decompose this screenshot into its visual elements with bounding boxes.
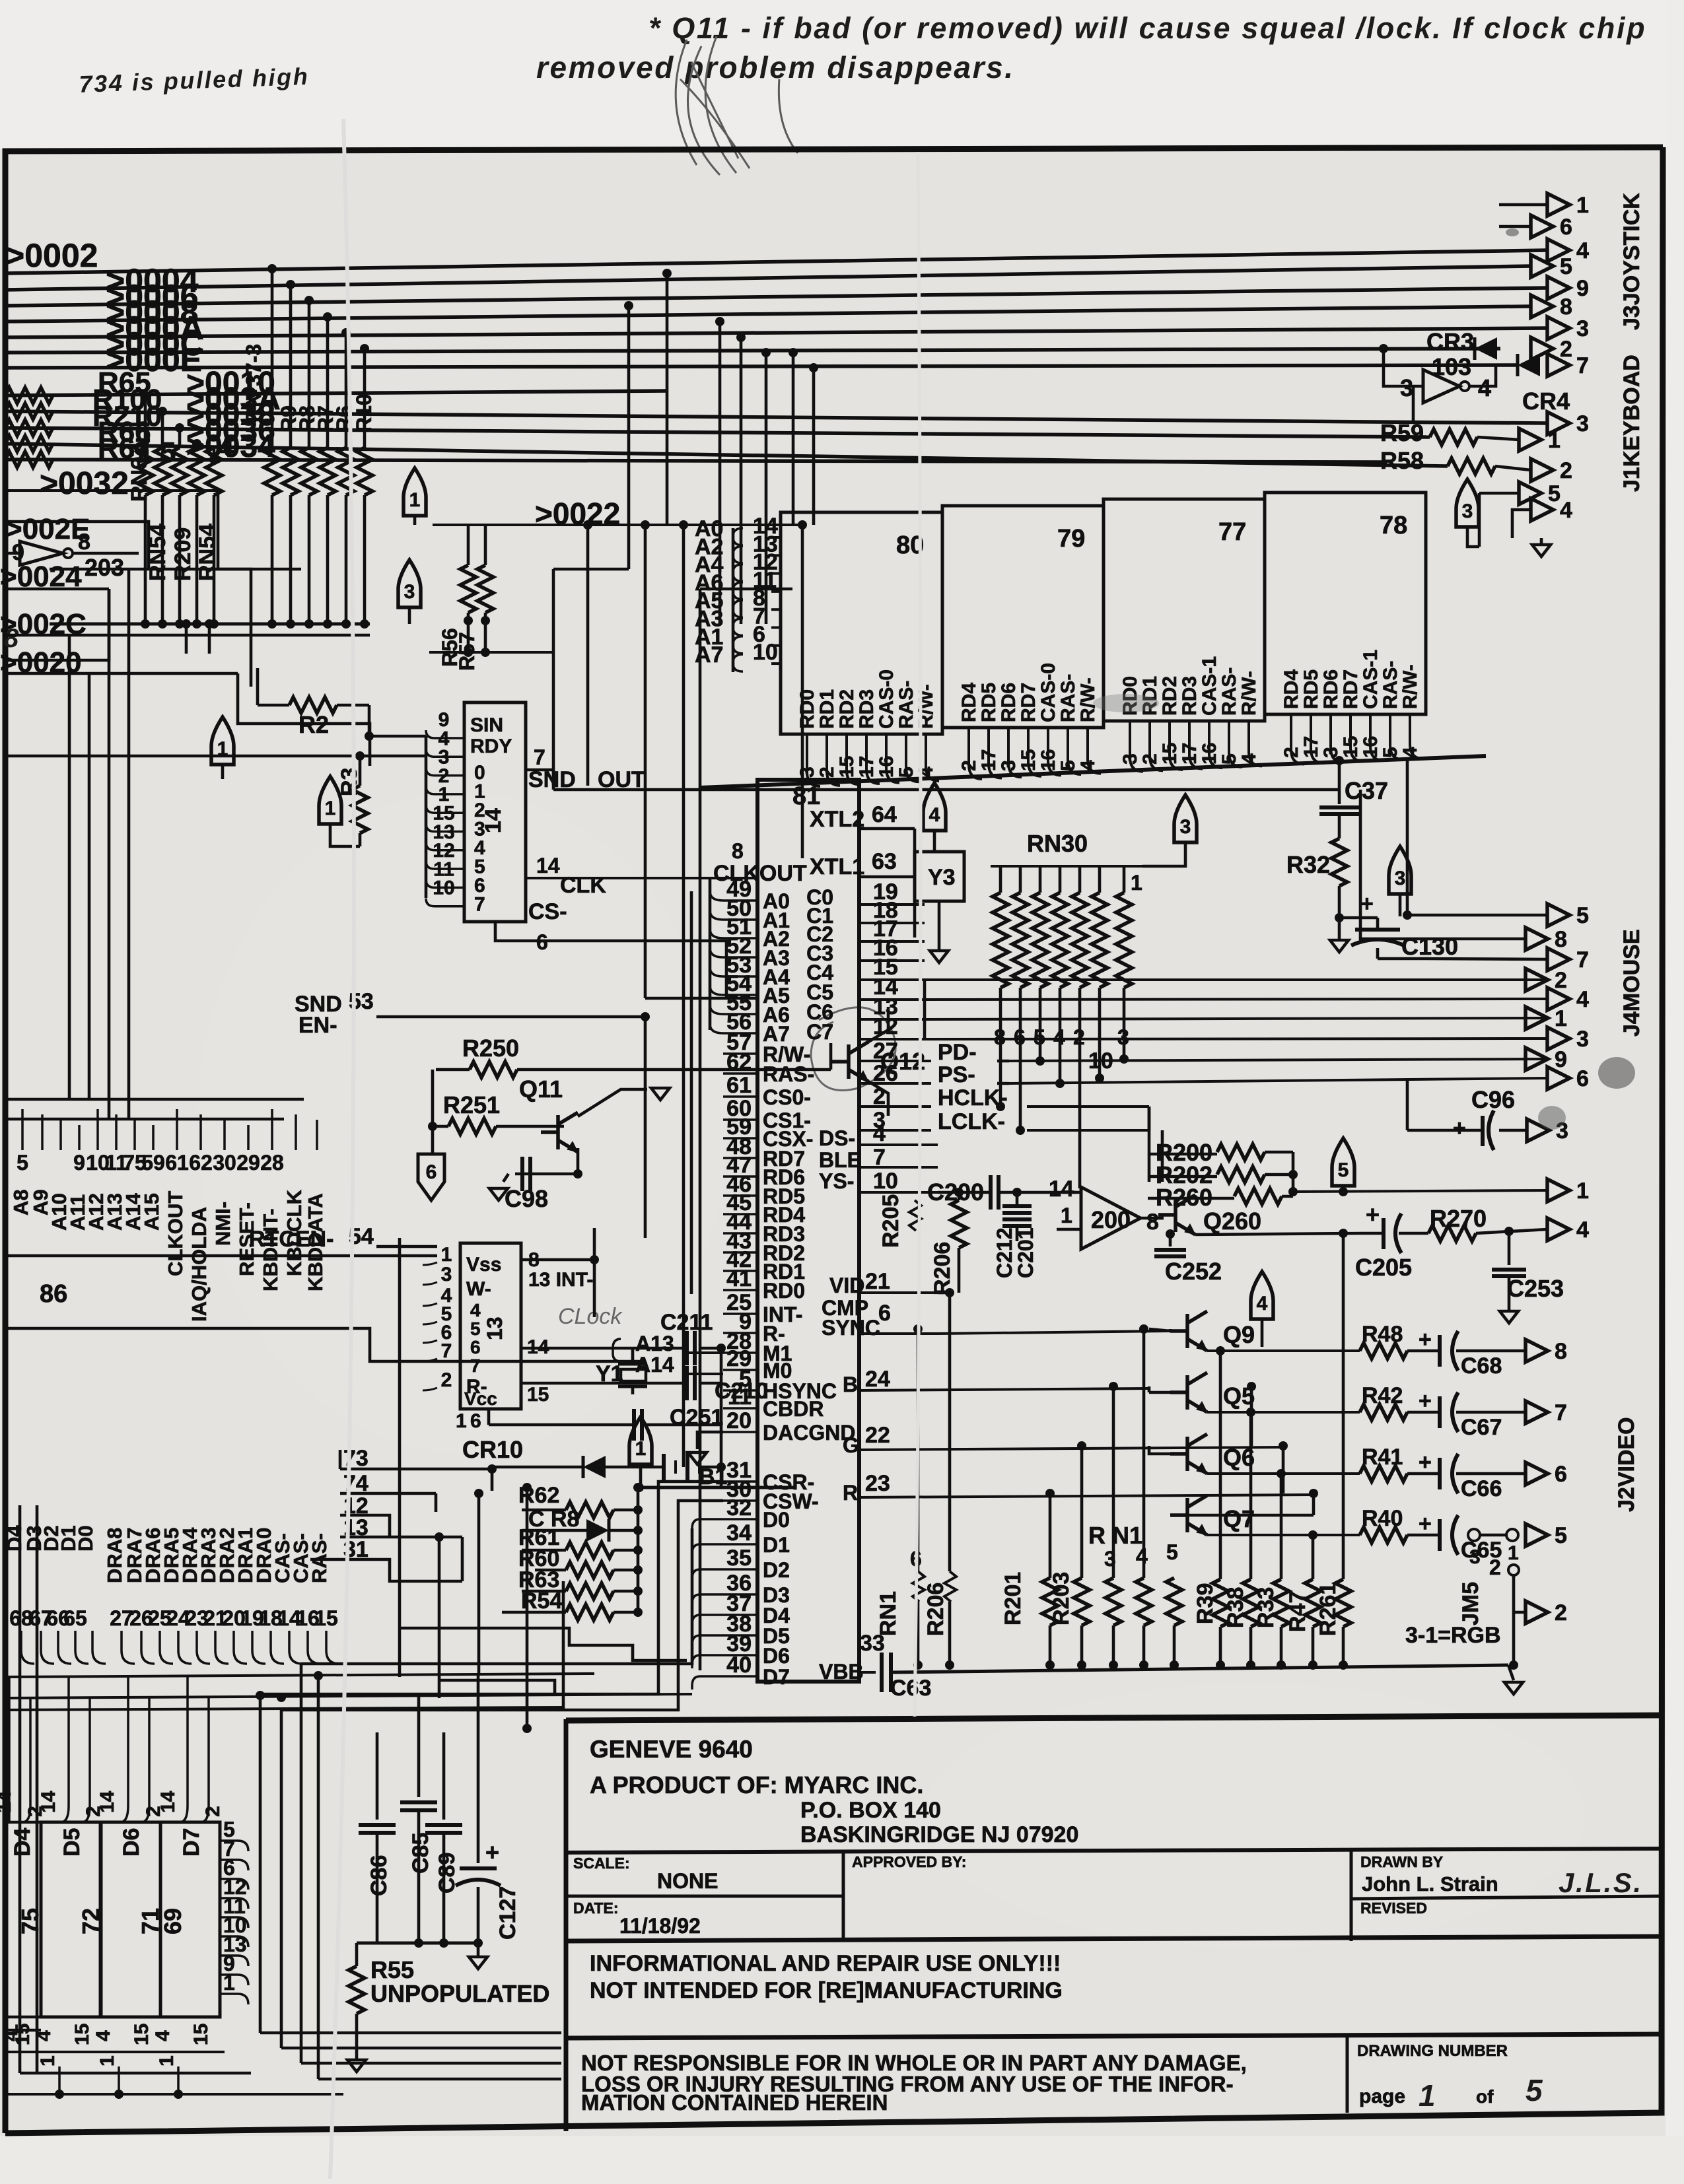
wire cluster A bus lines bbox=[4, 1098, 304, 1101]
wire mouse pin8 bbox=[1360, 790, 1526, 939]
J2 pin 6 bbox=[1526, 1462, 1548, 1485]
svg-text:DS-: DS- bbox=[819, 1126, 855, 1150]
wire to J2 pin1 bbox=[1293, 1190, 1547, 1192]
svg-text:D6: D6 bbox=[119, 1828, 144, 1857]
svg-text:C68: C68 bbox=[1461, 1353, 1502, 1379]
svg-text:BLE: BLE bbox=[819, 1148, 861, 1172]
J1 pin 1 bbox=[1519, 428, 1541, 451]
svg-text:11: 11 bbox=[728, 1384, 752, 1410]
wire pin hook bbox=[1048, 728, 1061, 775]
capacitor C252 bbox=[1169, 1233, 1172, 1246]
svg-text:RAS-: RAS- bbox=[1380, 661, 1401, 709]
svg-text:D2: D2 bbox=[763, 1558, 790, 1582]
svg-text:8: 8 bbox=[1555, 1339, 1567, 1364]
svg-text:RN 37-3: RN 37-3 bbox=[242, 344, 265, 423]
wire vertical bbox=[363, 349, 367, 448]
svg-text:12: 12 bbox=[873, 1014, 898, 1039]
svg-text:NMI-: NMI- bbox=[211, 1202, 234, 1246]
J4 pin 8 bbox=[1526, 928, 1548, 950]
power symbol 3 (RN30) bbox=[1174, 795, 1197, 842]
svg-text:6: 6 bbox=[1560, 215, 1572, 240]
wire pin hook bbox=[847, 734, 860, 784]
wire pin hook bbox=[423, 1340, 437, 1343]
svg-text:41: 41 bbox=[726, 1266, 752, 1291]
svg-text:4: 4 bbox=[929, 804, 940, 826]
wire vertical bbox=[271, 269, 274, 448]
wire vertical bbox=[345, 333, 348, 448]
svg-text:9: 9 bbox=[1555, 1047, 1567, 1072]
J3 pin 4 bbox=[1547, 239, 1570, 261]
wire base bbox=[1170, 1391, 1187, 1394]
svg-text:page: page bbox=[1359, 2086, 1405, 2107]
J4 pin 2 bbox=[1526, 969, 1548, 991]
ground J1 bbox=[1540, 538, 1543, 545]
svg-text:C85: C85 bbox=[408, 1833, 433, 1874]
svg-text:LCLK-: LCLK- bbox=[938, 1109, 1005, 1134]
resistor RN37 element 2 bbox=[155, 448, 170, 495]
svg-text:5: 5 bbox=[1526, 2073, 1544, 2107]
resistor RN37-3 bbox=[264, 448, 280, 495]
svg-text:>0002: >0002 bbox=[5, 237, 98, 274]
svg-text:RD6: RD6 bbox=[1320, 669, 1342, 709]
junction diamonds bbox=[464, 616, 473, 625]
svg-text:4: 4 bbox=[1576, 987, 1589, 1012]
svg-text:D7: D7 bbox=[179, 1828, 204, 1857]
svg-text:R39: R39 bbox=[1193, 1583, 1218, 1624]
svg-text:69: 69 bbox=[159, 1908, 186, 1934]
J1 pin 4 bbox=[1512, 510, 1531, 538]
svg-text:5: 5 bbox=[1166, 1540, 1178, 1564]
resistor R10 bbox=[357, 448, 372, 495]
svg-text:C205: C205 bbox=[1355, 1254, 1412, 1281]
J4 pin 7 bbox=[1547, 948, 1570, 971]
svg-text:3: 3 bbox=[1576, 1027, 1589, 1052]
resistor RN37 element 3 bbox=[172, 448, 188, 495]
svg-text:R203: R203 bbox=[1049, 1572, 1074, 1625]
svg-text:RN1: RN1 bbox=[876, 1591, 901, 1636]
svg-text:+: + bbox=[485, 1839, 499, 1866]
svg-text:81: 81 bbox=[792, 782, 820, 810]
IC box 69 bbox=[160, 1822, 220, 2017]
wire addr hook bbox=[733, 600, 743, 617]
svg-text:R33: R33 bbox=[1253, 1587, 1279, 1628]
svg-text:+: + bbox=[1419, 1511, 1432, 1536]
wire bus line bbox=[4, 349, 1500, 353]
svg-text:21: 21 bbox=[865, 1269, 890, 1294]
svg-text:1: 1 bbox=[1061, 1204, 1072, 1227]
wire addr hook bbox=[733, 619, 743, 636]
svg-text:78: 78 bbox=[1380, 512, 1407, 539]
svg-text:203: 203 bbox=[85, 554, 124, 581]
wire addr hook bbox=[733, 564, 743, 582]
wire left border verticals bbox=[18, 1505, 22, 2073]
wire vertical x977 bbox=[644, 525, 647, 998]
svg-text:+: + bbox=[1419, 1327, 1432, 1352]
svg-text:1: 1 bbox=[1576, 1178, 1589, 1204]
svg-text:C37: C37 bbox=[1345, 777, 1388, 804]
RN30 resistor 6 bbox=[1098, 866, 1102, 893]
svg-text:Q260: Q260 bbox=[1203, 1208, 1261, 1235]
svg-text:15: 15 bbox=[527, 1384, 549, 1406]
wire CR4 net bbox=[1384, 349, 1423, 386]
wire pin hook bbox=[426, 768, 464, 776]
capacitor C65 bbox=[1407, 1534, 1440, 1537]
wire bus lines lower left bbox=[4, 1674, 594, 1677]
svg-text:5: 5 bbox=[1548, 481, 1561, 506]
svg-text:KBDCLK: KBDCLK bbox=[283, 1190, 306, 1276]
svg-text:BASKINGRIDGE NJ 07920: BASKINGRIDGE NJ 07920 bbox=[800, 1822, 1078, 1847]
svg-text:5: 5 bbox=[1338, 1159, 1349, 1181]
svg-text:CLK: CLK bbox=[560, 873, 606, 898]
IC box 72 bbox=[41, 1822, 100, 2017]
svg-text:C252: C252 bbox=[1165, 1258, 1222, 1285]
wire horiz mid bbox=[553, 568, 629, 571]
wire addr vert bbox=[732, 528, 735, 672]
svg-text:PS-: PS- bbox=[938, 1062, 975, 1087]
wire pin hook bbox=[827, 734, 840, 786]
wire pin hook bbox=[926, 734, 939, 781]
wire crystal node bbox=[720, 1348, 723, 1383]
svg-text:RD1: RD1 bbox=[816, 689, 838, 729]
wire bus line bbox=[4, 266, 1531, 290]
resistor R8 bbox=[301, 448, 317, 495]
svg-text:1: 1 bbox=[156, 2055, 178, 2066]
svg-text:22: 22 bbox=[865, 1423, 890, 1448]
wire Q11 bbox=[431, 1070, 435, 1126]
svg-text:3: 3 bbox=[404, 581, 415, 603]
svg-text:75: 75 bbox=[17, 1908, 44, 1934]
svg-text:+: + bbox=[1419, 1450, 1432, 1475]
wire vertical bbox=[308, 300, 311, 448]
J3 pin 1 bbox=[1499, 203, 1547, 207]
wire vertical x1010 bbox=[666, 273, 669, 525]
svg-text:+: + bbox=[1419, 1388, 1432, 1414]
scan smudges bbox=[1598, 1057, 1635, 1089]
J1 pin 2 bbox=[1531, 459, 1553, 481]
wire pin hook bbox=[1390, 714, 1403, 760]
svg-text:1: 1 bbox=[409, 489, 421, 511]
wire bus line bbox=[4, 306, 1531, 322]
svg-text:D1: D1 bbox=[763, 1533, 790, 1557]
svg-text:2: 2 bbox=[1555, 968, 1567, 993]
wire pin hook bbox=[426, 805, 464, 813]
resistor R66 bbox=[5, 436, 53, 452]
wire mouse pin5 bbox=[1407, 914, 1547, 917]
power symbol 1 (B1) bbox=[629, 1417, 652, 1464]
svg-text:RD5: RD5 bbox=[1300, 669, 1322, 709]
diode CR4 bbox=[1518, 354, 1540, 376]
svg-text:RD2: RD2 bbox=[1159, 676, 1181, 716]
svg-text:1: 1 bbox=[96, 2055, 118, 2066]
svg-text:4: 4 bbox=[92, 2030, 114, 2041]
wire pin hook bbox=[426, 879, 464, 887]
svg-text:1: 1 bbox=[1576, 193, 1589, 218]
wire base bbox=[1170, 1452, 1187, 1456]
svg-text:4: 4 bbox=[1478, 374, 1491, 401]
svg-text:4: 4 bbox=[152, 2030, 174, 2041]
J3 pin 2 bbox=[1531, 337, 1553, 360]
pencil scribble Q12 bbox=[811, 1007, 895, 1091]
svg-text:5: 5 bbox=[470, 1318, 481, 1339]
resistor R6 bbox=[338, 448, 354, 495]
DRAM chip box 80 bbox=[781, 512, 942, 734]
wire base bbox=[1170, 1514, 1187, 1517]
wire pin hook bbox=[866, 734, 880, 784]
resistor RN37 element 5 bbox=[206, 448, 222, 495]
wire left long verticals bbox=[68, 635, 71, 1099]
wire vertical x838 bbox=[552, 569, 555, 786]
wire trunk verticals bottom bbox=[398, 1631, 402, 1677]
wire pin hook bbox=[969, 728, 982, 779]
wire chip14 left bus bbox=[425, 736, 428, 898]
svg-text:10: 10 bbox=[873, 1169, 898, 1194]
svg-text:63: 63 bbox=[872, 849, 897, 874]
svg-text:5: 5 bbox=[17, 1151, 28, 1175]
svg-text:R/W-: R/W- bbox=[1399, 664, 1421, 709]
wire pin hook bbox=[426, 824, 464, 832]
svg-text:D0: D0 bbox=[74, 1525, 97, 1552]
ground R32 bbox=[1338, 918, 1341, 939]
svg-text:24: 24 bbox=[865, 1367, 890, 1392]
svg-text:3: 3 bbox=[1576, 316, 1589, 341]
svg-text:1: 1 bbox=[37, 2055, 59, 2066]
svg-text:59: 59 bbox=[141, 1151, 165, 1175]
resistor R100 bbox=[5, 403, 53, 419]
svg-text:C67: C67 bbox=[1461, 1415, 1502, 1440]
svg-text:61: 61 bbox=[726, 1073, 752, 1098]
wire bottom hooks bbox=[4, 2029, 41, 2032]
pencil scribble bbox=[676, 36, 798, 175]
svg-text:7: 7 bbox=[474, 894, 485, 916]
resistor R67 bbox=[5, 452, 53, 467]
wire trunk verticals mid bbox=[339, 1450, 342, 1469]
svg-text:CS0-: CS0- bbox=[763, 1085, 811, 1109]
svg-text:86: 86 bbox=[40, 1280, 67, 1308]
svg-text:RAS-: RAS- bbox=[308, 1533, 331, 1583]
ground JM5 bbox=[1508, 1665, 1514, 1680]
wire vertical bbox=[144, 395, 147, 448]
IC 13 clock chip box bbox=[460, 1243, 521, 1409]
svg-text:R2: R2 bbox=[298, 711, 329, 738]
wire vertical x1215 bbox=[801, 525, 804, 858]
svg-text:INFORMATIONAL AND REPAIR US: INFORMATIONAL AND REPAIR USE ONLY!!! bbox=[590, 1951, 1061, 1976]
svg-text:C96: C96 bbox=[1471, 1086, 1515, 1113]
wire SNDOUT bbox=[552, 770, 555, 790]
svg-text:removed problem disappears.: removed problem disappears. bbox=[536, 50, 1015, 85]
DRAM chip box 78 bbox=[1265, 493, 1426, 714]
svg-text:PD-: PD- bbox=[938, 1040, 977, 1065]
wire pin hook bbox=[1008, 728, 1022, 777]
wire D bus vert bbox=[301, 1528, 692, 1664]
svg-text:Vcc: Vcc bbox=[464, 1388, 497, 1409]
wire pin hook bbox=[426, 730, 464, 738]
svg-text:RD0: RD0 bbox=[796, 689, 818, 729]
wire pin hook bbox=[1209, 721, 1222, 768]
svg-text:R251: R251 bbox=[443, 1091, 500, 1118]
wire vertical x890 bbox=[586, 525, 590, 786]
svg-text:CAS-1: CAS-1 bbox=[1360, 650, 1382, 709]
svg-text:RAS-: RAS- bbox=[763, 1062, 814, 1086]
svg-text:3: 3 bbox=[1395, 868, 1406, 889]
svg-text:2: 2 bbox=[1560, 337, 1572, 362]
J3 pin 6 bbox=[1499, 225, 1531, 228]
J3 pin 9 bbox=[1547, 277, 1570, 299]
svg-text:5: 5 bbox=[1576, 903, 1589, 928]
svg-text:20: 20 bbox=[726, 1408, 752, 1433]
J2 pin 4 bbox=[1547, 1218, 1570, 1241]
wire fan verticals bbox=[259, 1694, 262, 2033]
wire R2xx join bbox=[1292, 1152, 1295, 1196]
svg-text:R206: R206 bbox=[923, 1583, 948, 1636]
wire pin hook bbox=[1189, 721, 1203, 769]
resistor R56 bbox=[467, 525, 470, 565]
power symbol 3 (keyboard) bbox=[1456, 479, 1479, 527]
svg-text:NONE: NONE bbox=[657, 1869, 718, 1893]
svg-text:4: 4 bbox=[1257, 1293, 1268, 1314]
svg-text:11/18/92: 11/18/92 bbox=[619, 1914, 701, 1938]
ground Y3 bbox=[938, 901, 941, 949]
wire R2 node bbox=[368, 705, 371, 736]
resistor R2 bbox=[256, 668, 260, 705]
svg-text:3: 3 bbox=[1469, 1546, 1481, 1568]
wire addr hook bbox=[733, 636, 743, 654]
svg-text:RAS-: RAS- bbox=[1057, 674, 1079, 722]
svg-text:R/W-: R/W- bbox=[1238, 671, 1260, 716]
svg-text:1: 1 bbox=[1555, 1006, 1567, 1031]
svg-text:2: 2 bbox=[24, 1806, 46, 1817]
svg-text:2: 2 bbox=[83, 1806, 104, 1817]
power symbol 3 (left) bbox=[398, 560, 421, 607]
svg-text:R206: R206 bbox=[930, 1242, 955, 1295]
resistor RN37 element 1 bbox=[137, 448, 153, 495]
svg-text:8: 8 bbox=[732, 839, 744, 863]
svg-text:RESET-: RESET- bbox=[235, 1202, 258, 1276]
svg-text:32: 32 bbox=[726, 1495, 752, 1520]
svg-text:R201: R201 bbox=[1000, 1572, 1026, 1625]
svg-text:8: 8 bbox=[1560, 294, 1572, 320]
svg-text:John L. Strain: John L. Strain bbox=[1362, 1872, 1498, 1895]
wire keyboard stub bbox=[1478, 493, 1481, 547]
svg-text:VBB: VBB bbox=[819, 1660, 864, 1684]
power symbol 5 bbox=[1332, 1138, 1354, 1186]
svg-text:RAS-: RAS- bbox=[895, 681, 917, 729]
IC box 75 partial bbox=[5, 1821, 41, 1824]
svg-text:7: 7 bbox=[1576, 353, 1589, 378]
svg-text:C212: C212 bbox=[993, 1228, 1016, 1279]
svg-text:7: 7 bbox=[1555, 1400, 1567, 1425]
wire CSR/CSW hooks bbox=[260, 1482, 723, 1694]
IC box 71 bbox=[101, 1822, 160, 2017]
capacitor C212 C201 bbox=[1002, 1204, 1032, 1208]
svg-text:IAQ/HOLDA: IAQ/HOLDA bbox=[188, 1207, 211, 1322]
J1 pin 5 bbox=[1479, 492, 1519, 495]
svg-text:4: 4 bbox=[873, 1121, 886, 1146]
svg-text:8: 8 bbox=[78, 529, 90, 555]
wire pin hook bbox=[426, 861, 464, 869]
wire chip81 left bus verticals bbox=[709, 878, 712, 1030]
svg-text:15: 15 bbox=[71, 2024, 93, 2045]
svg-text:SIN: SIN bbox=[470, 714, 503, 736]
svg-text:9: 9 bbox=[1576, 276, 1589, 301]
svg-text:CS-: CS- bbox=[528, 899, 567, 924]
svg-text:8: 8 bbox=[1146, 1210, 1159, 1235]
svg-text:14: 14 bbox=[536, 854, 560, 877]
wire pin hook bbox=[423, 1282, 437, 1285]
wire vertical bbox=[289, 285, 293, 448]
wire C130 to mouse pin7 bbox=[1426, 959, 1547, 959]
svg-text:7: 7 bbox=[1576, 947, 1589, 973]
wire CS bbox=[495, 922, 726, 998]
svg-text:R32: R32 bbox=[1286, 851, 1330, 878]
svg-text:RD6: RD6 bbox=[998, 683, 1020, 722]
svg-text:JM5: JM5 bbox=[1458, 1582, 1483, 1625]
svg-text:YS-: YS- bbox=[819, 1169, 854, 1193]
DRAM chip box 79 bbox=[942, 506, 1104, 728]
svg-text:R205: R205 bbox=[878, 1194, 903, 1248]
svg-text:10: 10 bbox=[753, 640, 778, 665]
wire pin hook bbox=[426, 786, 464, 794]
wire vertical bbox=[213, 448, 216, 460]
svg-text:J2VIDEO: J2VIDEO bbox=[1614, 1417, 1639, 1512]
svg-text:R270: R270 bbox=[1430, 1205, 1487, 1232]
svg-text:MATION CONTAINED HEREIN: MATION CONTAINED HEREIN bbox=[581, 2090, 888, 2115]
svg-text:15: 15 bbox=[131, 2024, 153, 2045]
svg-text:B: B bbox=[843, 1373, 858, 1396]
wire pin hook bbox=[1130, 721, 1143, 772]
svg-text:C66: C66 bbox=[1461, 1476, 1502, 1501]
svg-text:40: 40 bbox=[726, 1653, 752, 1678]
svg-text:4: 4 bbox=[33, 2030, 55, 2041]
wire pin hook bbox=[906, 734, 919, 782]
svg-text:5: 5 bbox=[160, 436, 176, 469]
J4 pin 9 bbox=[1526, 1048, 1548, 1070]
capacitor C68 bbox=[1407, 1349, 1440, 1353]
svg-text:C130: C130 bbox=[1401, 933, 1458, 960]
svg-text:5: 5 bbox=[1560, 254, 1572, 279]
wire pin hook bbox=[426, 842, 464, 850]
resistor R206 (video) bbox=[958, 1192, 961, 1200]
wire pin hook bbox=[989, 728, 1002, 778]
svg-text:RD7: RD7 bbox=[1340, 669, 1362, 709]
wire C4-C7 long rows to mouse bbox=[925, 978, 1547, 981]
svg-text:7: 7 bbox=[470, 1355, 481, 1376]
wire 73 left bbox=[491, 1467, 494, 1491]
svg-text:3: 3 bbox=[441, 1264, 452, 1285]
svg-text:KBDINT-: KBDINT- bbox=[259, 1208, 282, 1291]
svg-text:2: 2 bbox=[1555, 1600, 1567, 1625]
resistor R57 bbox=[484, 525, 487, 565]
wire addr hook bbox=[733, 528, 743, 545]
svg-text:35: 35 bbox=[726, 1546, 752, 1571]
svg-text:R10: R10 bbox=[352, 393, 376, 432]
J2 pin 7 bbox=[1526, 1401, 1548, 1423]
svg-text:Vss: Vss bbox=[466, 1254, 501, 1276]
svg-text:4: 4 bbox=[1560, 498, 1572, 523]
wire 0022 horizontal bbox=[433, 524, 802, 526]
svg-text:1: 1 bbox=[1548, 428, 1561, 453]
resistor R9 bbox=[283, 448, 298, 495]
svg-text:A15: A15 bbox=[140, 1193, 163, 1231]
svg-text:30: 30 bbox=[213, 1151, 236, 1175]
svg-text:P.O. BOX 140: P.O. BOX 140 bbox=[800, 1798, 941, 1823]
wire pin hook bbox=[426, 749, 464, 757]
wire base bbox=[1170, 1330, 1187, 1333]
svg-text:Q9: Q9 bbox=[1223, 1321, 1255, 1348]
resistor R210 bbox=[5, 420, 53, 436]
wire left step bbox=[4, 1328, 645, 1361]
svg-text:4: 4 bbox=[470, 1300, 481, 1320]
svg-text:4: 4 bbox=[218, 431, 234, 463]
